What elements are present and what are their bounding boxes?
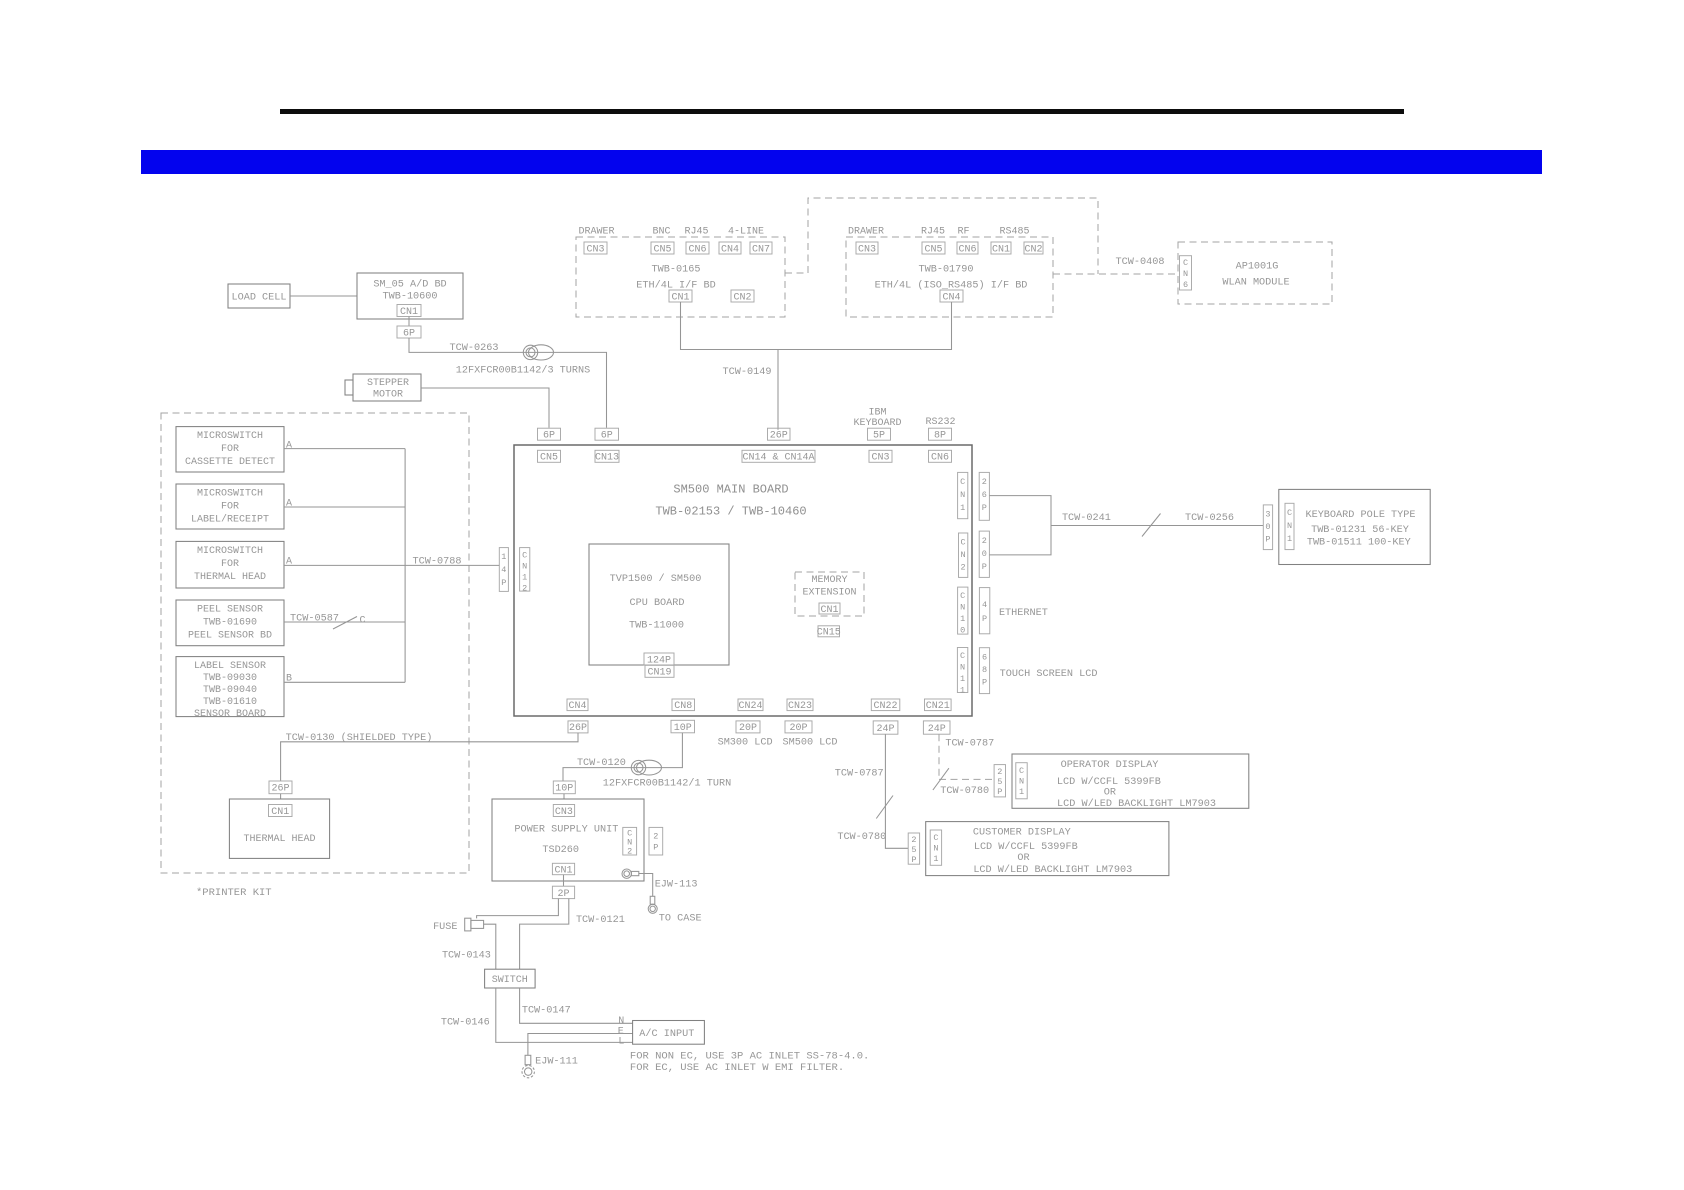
svg-text:20P: 20P — [789, 723, 807, 734]
connector 10P (PSU) — [553, 781, 575, 795]
wire CN1 to 6P — [408, 317, 410, 327]
svg-text:LOAD CELL: LOAD CELL — [231, 293, 286, 304]
connector CN6 (TWB-0165) — [686, 242, 709, 255]
svg-text:CN21: CN21 — [926, 701, 950, 712]
connector 20P (below CN24) — [736, 721, 760, 734]
svg-text:L: L — [618, 1037, 624, 1048]
svg-text:A: A — [286, 499, 292, 510]
svg-text:TWB-0165: TWB-0165 — [652, 265, 701, 276]
svg-text:CN24: CN24 — [738, 701, 762, 712]
connector 8P (RS232) — [929, 428, 952, 441]
ferrite core on TCW-0263 — [523, 345, 553, 360]
svg-text:CN3: CN3 — [555, 807, 573, 818]
svg-text:TCW-0787: TCW-0787 — [835, 769, 884, 780]
connector CN10 (main board right) — [958, 587, 968, 635]
svg-text:STEPPER: STEPPER — [367, 378, 409, 389]
svg-text:24P: 24P — [928, 724, 946, 735]
svg-text:CASSETTE DETECT: CASSETTE DETECT — [185, 457, 275, 468]
connector CN2 (main board right) — [959, 533, 968, 577]
connector CN8 (main board bottom) — [672, 699, 695, 712]
svg-text:24P: 24P — [876, 724, 894, 735]
svg-text:POWER SUPPLY UNIT: POWER SUPPLY UNIT — [514, 825, 618, 836]
svg-text:CN11: CN11 — [960, 651, 965, 696]
customer display box — [926, 822, 1169, 876]
svg-text:26P: 26P — [982, 477, 987, 513]
connector CN12 (main board left) — [520, 548, 530, 594]
connector CN6 (TWB-01790) — [957, 242, 978, 255]
cable slash mark — [333, 617, 357, 630]
svg-text:C: C — [359, 616, 365, 627]
connector 26P (right of main board) — [979, 472, 989, 520]
svg-text:TCW-0130 (SHIELDED TYPE): TCW-0130 (SHIELDED TYPE) — [286, 732, 433, 744]
svg-text:N: N — [618, 1016, 624, 1027]
ring terminal EJW-113 — [622, 869, 639, 878]
svg-text:CN1: CN1 — [400, 307, 418, 318]
connector 20P (below CN23) — [785, 721, 812, 734]
svg-text:TCW-0149: TCW-0149 — [723, 367, 772, 378]
svg-text:CN5: CN5 — [653, 244, 671, 255]
svg-text:6P: 6P — [543, 431, 555, 442]
svg-text:CN13: CN13 — [595, 453, 619, 464]
wire TCW-0149 from CN1/CN4 to main board — [681, 302, 952, 430]
svg-text:ETHERNET: ETHERNET — [999, 608, 1048, 619]
connector 6P (above CN5) — [538, 428, 561, 441]
svg-text:LABEL SENSOR: LABEL SENSOR — [194, 661, 266, 672]
svg-text:TCW-0780: TCW-0780 — [837, 832, 886, 843]
ETH/4L (ISO_RS485) I/F board TWB-01790 — [846, 227, 1053, 318]
connector CN15 (main board) — [817, 626, 841, 639]
svg-text:FUSE: FUSE — [433, 922, 457, 933]
wire 10P to CN3 — [563, 794, 565, 799]
svg-text:2P: 2P — [653, 832, 658, 853]
connector CN6 (main board top) — [929, 450, 952, 463]
connector 24P (below CN22) — [873, 721, 898, 735]
svg-text:TWB-01790: TWB-01790 — [918, 265, 973, 276]
connector 26P (above CN14) — [768, 428, 791, 441]
wire TCW-0146 switch to AC input L — [496, 988, 633, 1042]
svg-text:CN2: CN2 — [1024, 244, 1042, 255]
svg-text:FOR NON EC, USE 3P AC INLET SS: FOR NON EC, USE 3P AC INLET SS-78-4.0. — [630, 1051, 869, 1063]
connector 5P (IBM keyboard) — [868, 428, 891, 441]
connector CN3 (TWB-0165) — [584, 242, 607, 255]
thermal head box — [229, 799, 329, 858]
wire TCW-0788 to 14P — [284, 564, 499, 566]
svg-text:TCW-0121: TCW-0121 — [576, 915, 625, 926]
svg-text:AP1001G: AP1001G — [1236, 262, 1279, 273]
connector 4P (right of main board) — [979, 588, 989, 634]
svg-text:TWB-01690: TWB-01690 — [203, 618, 257, 629]
svg-text:RJ45: RJ45 — [684, 227, 708, 238]
printer kit dashed enclosure — [161, 413, 469, 873]
connector CN1 (main board right) — [958, 472, 968, 518]
connector CN3 (main board top) — [869, 450, 892, 463]
svg-text:CN3: CN3 — [858, 244, 876, 255]
blue banner — [141, 150, 1542, 174]
keyboard pole type box — [1279, 489, 1430, 564]
svg-text:TCW-0787: TCW-0787 — [945, 739, 994, 750]
svg-text:26P: 26P — [569, 723, 587, 734]
svg-text:10P: 10P — [674, 723, 692, 734]
svg-text:CN5: CN5 — [540, 453, 558, 464]
svg-text:CN1: CN1 — [671, 292, 689, 303]
connector 24P (below CN21) — [923, 721, 950, 735]
svg-text:CN23: CN23 — [788, 701, 812, 712]
SM500 main board — [514, 445, 972, 716]
svg-text:25P: 25P — [997, 767, 1002, 797]
microswitch for thermal head — [176, 541, 284, 588]
svg-text:FOR: FOR — [221, 444, 239, 455]
svg-text:RS485: RS485 — [999, 227, 1029, 238]
connector 20P (right of main board) — [979, 531, 989, 577]
svg-text:CN19: CN19 — [647, 668, 671, 679]
svg-text:LABEL/RECEIPT: LABEL/RECEIPT — [191, 514, 269, 526]
connector 25P (customer display) — [908, 833, 919, 865]
svg-text:DRAWER: DRAWER — [848, 227, 884, 238]
svg-text:CN6: CN6 — [688, 244, 706, 255]
connector CN1 (TWB-01790) — [991, 242, 1011, 255]
svg-text:CN2: CN2 — [627, 829, 632, 857]
svg-text:TCW-0146: TCW-0146 — [441, 1018, 490, 1029]
switch box — [485, 969, 535, 988]
connector CN1 (PSU) — [552, 863, 574, 876]
memory extension (dashed) — [795, 572, 864, 616]
svg-text:CPU BOARD: CPU BOARD — [629, 598, 684, 609]
svg-text:EXTENSION: EXTENSION — [802, 587, 856, 598]
svg-text:KEYBOARD POLE TYPE: KEYBOARD POLE TYPE — [1305, 510, 1415, 521]
microswitch for label/receipt — [176, 484, 284, 529]
connector CN4 (TWB-01790) — [940, 290, 963, 303]
svg-text:LCD W/LED BACKLIGHT LM7903: LCD W/LED BACKLIGHT LM7903 — [973, 864, 1132, 876]
wire load cell to A/D board — [290, 295, 357, 297]
svg-text:CN10: CN10 — [960, 591, 965, 636]
svg-text:CN4: CN4 — [568, 701, 586, 712]
connector CN14 & CN14A (main board) — [742, 450, 815, 463]
connector CN13 (main board) — [595, 450, 619, 463]
ferrite core on TCW-0120 — [631, 760, 661, 775]
wire EJW-111 to AC input E — [528, 1034, 633, 1056]
connector CN3 (PSU) — [553, 805, 574, 818]
cable slash mark — [933, 768, 949, 790]
svg-text:OPERATOR DISPLAY: OPERATOR DISPLAY — [1061, 760, 1159, 771]
connector CN1 (memory extension) — [819, 603, 840, 616]
svg-text:LCD W/LED BACKLIGHT LM7903: LCD W/LED BACKLIGHT LM7903 — [1057, 798, 1216, 810]
connector CN19 (main board) — [645, 665, 674, 678]
wire TCW-0787 CN22 to customer display — [885, 734, 908, 848]
peel sensor board — [176, 600, 284, 646]
svg-text:CN3: CN3 — [586, 244, 604, 255]
svg-text:CN4: CN4 — [942, 292, 960, 303]
wire TCW-0120 from 10P to PSU — [563, 733, 682, 781]
svg-text:CN7: CN7 — [752, 244, 770, 255]
fuse — [465, 918, 484, 931]
svg-text:SM300 LCD: SM300 LCD — [718, 738, 773, 749]
svg-text:TCW-0143: TCW-0143 — [442, 951, 491, 962]
svg-text:10P: 10P — [555, 784, 573, 795]
svg-text:12FXFCR00B1142/1 TURN: 12FXFCR00B1142/1 TURN — [603, 778, 731, 790]
svg-text:TWB-01610: TWB-01610 — [203, 697, 257, 708]
svg-text:CN1: CN1 — [992, 244, 1010, 255]
power supply unit TSD260 — [492, 799, 644, 881]
svg-text:12FXFCR00B1142/3 TURNS: 12FXFCR00B1142/3 TURNS — [456, 365, 591, 377]
svg-text:BNC: BNC — [652, 227, 670, 238]
microswitch for cassette detect — [176, 427, 284, 472]
svg-text:EJW-113: EJW-113 — [655, 880, 698, 891]
svg-text:CN22: CN22 — [873, 701, 897, 712]
svg-text:TO CASE: TO CASE — [659, 914, 702, 925]
svg-text:26P: 26P — [271, 784, 289, 795]
connector CN1 (TWB-0165) — [669, 290, 692, 303]
load cell box — [228, 284, 290, 308]
svg-text:CN1: CN1 — [960, 477, 965, 513]
wire TCW-0241 / TCW-0256 — [1051, 525, 1263, 527]
wire TCW-0587 (C) — [284, 621, 405, 623]
svg-text:TVP1500 / SM500: TVP1500 / SM500 — [610, 573, 702, 585]
AP1001G WLAN module — [1178, 242, 1332, 304]
svg-text:LCD W/CCFL 5399FB: LCD W/CCFL 5399FB — [974, 841, 1078, 853]
svg-text:*PRINTER KIT: *PRINTER KIT — [196, 887, 272, 899]
svg-text:30P: 30P — [1265, 510, 1270, 545]
svg-text:MEMORY: MEMORY — [811, 575, 847, 586]
svg-text:14P: 14P — [501, 552, 506, 588]
case screw (TO CASE) — [648, 896, 657, 913]
svg-text:EJW-111: EJW-111 — [535, 1057, 578, 1068]
svg-text:4P: 4P — [982, 600, 987, 624]
svg-text:124P: 124P — [647, 655, 671, 666]
svg-text:SM500 LCD: SM500 LCD — [782, 738, 837, 749]
svg-text:TCW-0256: TCW-0256 — [1185, 513, 1234, 524]
cable slash mark — [876, 796, 893, 819]
connector CN4 (main board bottom) — [567, 699, 588, 712]
wire label sensor (B) — [284, 681, 405, 683]
svg-text:5P: 5P — [873, 431, 885, 442]
connector CN5 (main board) — [538, 450, 561, 463]
connector CN1 (SM_05 A/D BD) — [397, 305, 421, 318]
svg-text:TCW-0120: TCW-0120 — [577, 758, 626, 769]
wire microswitch 1 (A) — [284, 448, 405, 450]
svg-text:CN6: CN6 — [1183, 258, 1188, 290]
connector CN1 (operator display) — [1016, 763, 1027, 799]
svg-text:CN1: CN1 — [820, 605, 838, 616]
A/C input box — [633, 1021, 705, 1045]
svg-text:8P: 8P — [934, 431, 946, 442]
svg-text:20P: 20P — [739, 723, 757, 734]
svg-text:TCW-0587: TCW-0587 — [290, 614, 339, 625]
connector 2P (below PSU CN1) — [552, 886, 574, 900]
svg-text:25P: 25P — [911, 835, 916, 865]
connector 14P (left of main board) — [499, 548, 508, 592]
wire microswitch 2 (A) — [284, 506, 405, 508]
svg-text:TWB-11000: TWB-11000 — [629, 621, 684, 632]
connector CN1 (keyboard) — [1285, 503, 1294, 549]
svg-text:CN2: CN2 — [733, 292, 751, 303]
wire TCW-0130 shielded — [281, 733, 578, 781]
svg-text:CN2: CN2 — [961, 538, 966, 573]
svg-text:IBM: IBM — [868, 408, 886, 419]
svg-text:CN6: CN6 — [931, 453, 949, 464]
wire EJW-113 to case — [639, 874, 653, 897]
svg-text:FOR: FOR — [221, 559, 239, 570]
connector CN1 (thermal head) — [269, 805, 293, 818]
top rule — [280, 109, 1404, 114]
connector CN2 (PSU) — [623, 827, 637, 856]
svg-text:TWB-02153 / TWB-10460: TWB-02153 / TWB-10460 — [655, 505, 806, 519]
wire harness bus — [404, 449, 406, 683]
connector 124P (CPU board) — [644, 653, 674, 666]
svg-text:CN5: CN5 — [924, 244, 942, 255]
connector CN4 (TWB-0165) — [719, 242, 741, 255]
svg-text:WLAN MODULE: WLAN MODULE — [1222, 278, 1289, 289]
svg-text:TCW-0263: TCW-0263 — [450, 343, 499, 354]
svg-text:TCW-0241: TCW-0241 — [1062, 513, 1111, 524]
svg-text:TWB-01231 56-KEY: TWB-01231 56-KEY — [1311, 525, 1409, 536]
wire bracket 26P/20P to keyboard cable — [989, 496, 1051, 555]
SM_05 A/D board — [357, 273, 463, 319]
dashed wire TCW-0787 CN21 to operator display — [939, 734, 994, 779]
connector CN2 (TWB-01790) — [1024, 242, 1043, 255]
operator display box — [1012, 754, 1249, 810]
svg-text:CN1: CN1 — [1287, 508, 1292, 544]
svg-text:TCW-0147: TCW-0147 — [522, 1006, 571, 1017]
wire TCW-0121 2P to switch — [520, 899, 569, 970]
svg-text:MICROSWITCH: MICROSWITCH — [197, 546, 263, 557]
wire CN1 to 2P — [563, 875, 565, 887]
svg-text:20P: 20P — [982, 536, 987, 572]
svg-text:PEEL SENSOR: PEEL SENSOR — [197, 605, 263, 616]
connector 68P (right of main board) — [979, 648, 989, 694]
connector 25P (operator display) — [994, 765, 1005, 797]
svg-text:KEYBOARD: KEYBOARD — [853, 418, 901, 429]
connector CN1 (customer display) — [930, 830, 941, 865]
wire TCW-0147 switch to AC input N — [520, 988, 633, 1023]
svg-text:CN15: CN15 — [817, 628, 841, 639]
svg-text:6P: 6P — [403, 328, 415, 339]
svg-text:SM_05 A/D BD: SM_05 A/D BD — [373, 279, 446, 291]
connector CN7 (TWB-0165) — [750, 242, 772, 255]
svg-text:TWB-10600: TWB-10600 — [382, 292, 437, 303]
wire 2P to fuse — [477, 899, 559, 919]
connector 26P (below CN4) — [568, 721, 588, 734]
connector 30P (keyboard) — [1263, 505, 1272, 550]
wire TCW-0263 — [409, 338, 607, 428]
svg-text:68P: 68P — [982, 653, 987, 688]
connector CN21 (main board bottom) — [925, 699, 952, 712]
svg-text:CN12: CN12 — [522, 551, 527, 594]
label sensor board — [176, 657, 284, 720]
svg-text:CN1: CN1 — [933, 833, 938, 864]
svg-text:26P: 26P — [770, 431, 788, 442]
svg-text:CN1: CN1 — [1019, 766, 1024, 797]
svg-text:B: B — [286, 674, 292, 685]
svg-text:TSD260: TSD260 — [542, 845, 579, 856]
svg-text:PEEL SENSOR BD: PEEL SENSOR BD — [188, 631, 272, 642]
svg-text:SENSOR BOARD: SENSOR BOARD — [194, 709, 266, 720]
connector CN24 (main board bottom) — [738, 699, 763, 712]
svg-text:CN8: CN8 — [674, 701, 692, 712]
svg-text:OR: OR — [1104, 788, 1116, 799]
svg-text:DRAWER: DRAWER — [578, 227, 614, 238]
svg-text:TOUCH SCREEN LCD: TOUCH SCREEN LCD — [1000, 669, 1098, 680]
svg-text:FOR: FOR — [221, 502, 239, 513]
svg-text:SM500 MAIN BOARD: SM500 MAIN BOARD — [673, 483, 788, 497]
svg-text:CN6: CN6 — [958, 244, 976, 255]
svg-text:A: A — [286, 557, 292, 568]
connector 6P (SM_05) — [397, 326, 421, 339]
svg-text:A: A — [286, 441, 292, 452]
connector 26P (thermal head) — [269, 781, 292, 795]
svg-text:TWB-09030: TWB-09030 — [203, 673, 257, 684]
svg-text:6P: 6P — [601, 431, 613, 442]
svg-text:4-LINE: 4-LINE — [728, 227, 764, 238]
ground screw EJW-111 — [522, 1055, 534, 1078]
svg-text:RJ45: RJ45 — [921, 227, 945, 238]
svg-text:FOR EC, USE AC INLET W EMI FIL: FOR EC, USE AC INLET W EMI FILTER. — [630, 1062, 844, 1074]
cable slash mark — [1142, 514, 1161, 537]
svg-text:MICROSWITCH: MICROSWITCH — [197, 489, 263, 500]
connector CN11 (main board right) — [957, 648, 967, 696]
dashed link TWB-0165 to WLAN routing — [785, 198, 1098, 274]
connector 10P (below CN8) — [671, 720, 695, 734]
ETH/4L I/F board TWB-0165 — [576, 227, 785, 318]
wire TCW-0143 fuse to switch — [484, 924, 496, 969]
svg-text:THERMAL HEAD: THERMAL HEAD — [243, 834, 315, 845]
svg-text:LCD W/CCFL 5399FB: LCD W/CCFL 5399FB — [1057, 776, 1161, 788]
connector 6P (above CN13) — [595, 428, 619, 441]
svg-text:CN1: CN1 — [271, 807, 289, 818]
svg-text:TWB-01511 100-KEY: TWB-01511 100-KEY — [1307, 538, 1411, 549]
svg-text:CUSTOMER DISPLAY: CUSTOMER DISPLAY — [973, 828, 1071, 839]
svg-text:TWB-09040: TWB-09040 — [203, 685, 257, 696]
wire stepper motor to CN5 6P — [421, 388, 549, 428]
connector CN5 (TWB-01790) — [922, 242, 945, 255]
connector CN22 (main board bottom) — [871, 699, 900, 712]
svg-text:2P: 2P — [557, 889, 569, 900]
svg-text:TCW-0788: TCW-0788 — [413, 557, 462, 568]
CPU board TWB-11000 — [589, 544, 729, 665]
svg-text:SWITCH: SWITCH — [492, 975, 528, 986]
stepper motor — [345, 374, 421, 401]
svg-text:CN14 & CN14A: CN14 & CN14A — [742, 453, 814, 464]
svg-text:TCW-0408: TCW-0408 — [1116, 257, 1165, 268]
svg-text:MOTOR: MOTOR — [373, 390, 403, 401]
connector CN5 (TWB-0165) — [651, 242, 674, 255]
svg-text:CN1: CN1 — [554, 865, 572, 876]
wire 26P to thermal head CN1 — [280, 794, 282, 799]
connector CN3 (TWB-01790) — [856, 242, 878, 255]
dashed wire TCW-0408 — [1053, 273, 1178, 275]
svg-text:TCW-0780: TCW-0780 — [940, 786, 989, 797]
connector 2P (right of PSU) — [649, 827, 663, 855]
svg-text:A/C INPUT: A/C INPUT — [639, 1028, 694, 1040]
connector CN2 (TWB-0165) — [731, 290, 754, 303]
svg-text:OR: OR — [1017, 853, 1029, 864]
svg-text:RS232: RS232 — [925, 417, 955, 428]
svg-text:CN3: CN3 — [871, 453, 889, 464]
svg-text:RF: RF — [957, 227, 969, 238]
connector CN6 (WLAN module) — [1180, 256, 1192, 290]
svg-text:CN4: CN4 — [721, 244, 739, 255]
svg-text:THERMAL HEAD: THERMAL HEAD — [194, 572, 266, 583]
connector CN23 (main board bottom) — [787, 699, 813, 712]
svg-text:MICROSWITCH: MICROSWITCH — [197, 431, 263, 442]
